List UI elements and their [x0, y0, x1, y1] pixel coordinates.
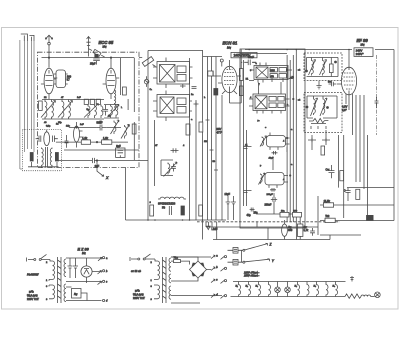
resistor strip bottom left	[150, 205, 154, 216]
capacitor 8uF block	[116, 148, 125, 157]
svg-text:C: C	[344, 188, 346, 192]
diode marks on bridge	[192, 263, 204, 276]
resistor series zigzag	[345, 294, 361, 298]
chassis dashed line	[197, 221, 340, 223]
wire ratio detector outputs	[47, 130, 62, 161]
svg-text:6,3V: 6,3V	[342, 105, 348, 109]
trimmer tilted element under ECC85 label	[93, 49, 101, 56]
terminal circled X	[371, 296, 375, 298]
resistor AM IF upper right	[330, 64, 334, 73]
capacitor electrolytic PSU1 b	[73, 258, 78, 278]
capacitor electrolytic strip bottom	[181, 206, 184, 215]
contact brackets left	[244, 147, 252, 193]
svg-text:µAh: µAh	[29, 290, 34, 294]
svg-text:Cw: Cw	[326, 167, 330, 171]
svg-text:E₃: E₃	[256, 285, 258, 287]
svg-text:0,6*: 0,6*	[342, 108, 347, 112]
screen divider dash-dot vertical	[376, 55, 378, 135]
trimmer tap symbol on bus	[350, 276, 354, 282]
svg-text:200pF: 200pF	[267, 194, 274, 196]
switch lever to Y	[245, 259, 270, 262]
transformer ratio detector windings	[42, 148, 44, 167]
AF-IF main box	[240, 49, 305, 228]
capacitor between cans	[180, 84, 186, 88]
wire right column horizontals	[320, 188, 394, 235]
tube EF89 envelope	[341, 67, 356, 95]
inductor oscillator winding under triode b	[114, 90, 116, 110]
tube ECH81 internal grids	[224, 70, 235, 85]
inductor tuned coil group 3 with trimmer arrow	[88, 105, 103, 119]
AM IF dashed enclosure lower	[304, 93, 342, 133]
wire heater chain bottom bus	[231, 296, 346, 298]
inductor AM IF coil 1b with arrow	[320, 60, 327, 76]
svg-text:E₅: E₅	[314, 285, 316, 287]
wire tie at top of AVC rails	[203, 56, 222, 58]
inductor ratio detector coil	[44, 132, 50, 146]
svg-text:cu 32 ab: cu 32 ab	[131, 269, 142, 273]
svg-text:8µF: 8µF	[116, 144, 121, 148]
wire link between contacts	[240, 250, 242, 262]
svg-text:E₄: E₄	[295, 284, 297, 287]
wire detector rail lower	[61, 160, 148, 162]
wire switch feeds	[228, 250, 243, 262]
pin ticks can C4	[269, 176, 288, 188]
wire B+ rail	[245, 49, 394, 51]
resistor Rv	[298, 224, 303, 236]
tick marks AVC rails	[206, 120, 219, 170]
trap tuned circuit with arrow	[168, 163, 176, 175]
capacitor 2uF	[86, 158, 94, 166]
terminal PSU1 out 3	[98, 281, 102, 285]
heater element coil 8	[326, 282, 328, 297]
wire trimmer stub	[89, 49, 105, 57]
inductor tuning coil of C3 with arrow	[260, 136, 267, 147]
wire T2 primary taps	[154, 259, 158, 299]
svg-text:E₂: E₂	[246, 285, 248, 287]
terminal PSU1 out 2	[98, 270, 102, 274]
wire tuner right verticals	[128, 58, 134, 160]
wire PSU2 out rails	[171, 257, 222, 303]
capacitor padder row	[84, 99, 88, 104]
tube EF89 internal grids	[344, 73, 355, 89]
junction dots B+ rail	[248, 49, 349, 51]
resistor 11k on rail	[323, 203, 333, 207]
wire coil row extension	[104, 105, 119, 119]
terminal PSU2 circles col2	[224, 256, 226, 258]
junction dot output	[96, 160, 97, 161]
wire AM IF lower box	[307, 96, 337, 118]
resistor grid leak left column	[39, 101, 43, 110]
inductor slug coil right A with arrow	[114, 121, 116, 135]
fuse PSU2	[174, 260, 181, 263]
tube ECH81 envelope	[222, 66, 237, 92]
inductor AM IF coil 2a with arrow	[311, 98, 318, 116]
voltage label box 240V/245V	[354, 48, 373, 57]
resistor zigzag AM IF bottom	[309, 118, 328, 122]
wire from tuner bottom to bus	[125, 168, 127, 221]
wire lower rails of AF section	[206, 227, 330, 240]
wire heater chain top bus	[233, 281, 346, 283]
resistor block solid	[367, 215, 374, 220]
IF transformer can C1	[254, 66, 288, 80]
grid cap circle	[220, 59, 223, 62]
wire center box left verticals	[244, 60, 247, 206]
node antenna input circle	[48, 42, 51, 45]
svg-text:7k2: 7k2	[325, 214, 330, 218]
capacitor Cw	[329, 165, 335, 178]
resistor left rail lower	[239, 86, 243, 96]
switch PSU1	[34, 259, 36, 261]
capacitor feedthrough on top rail	[95, 54, 98, 57]
wire Rg Rv stubs	[285, 217, 301, 240]
wire bottom of center box	[257, 147, 296, 214]
heater element coil 7	[317, 282, 319, 297]
resistor on strip vertical right	[199, 122, 203, 132]
antenna AM dipole hook 2	[29, 35, 34, 41]
svg-text:1,7k: 1,7k	[304, 229, 309, 232]
svg-text:E Z 80: E Z 80	[78, 247, 90, 251]
svg-text:X: X	[105, 176, 109, 180]
svg-text:200nF: 200nF	[265, 204, 272, 207]
antenna FM dipole with arrowheads	[45, 35, 52, 39]
inductor AM IF coil 2b with arrow	[320, 98, 327, 116]
svg-text:E₁: E₁	[236, 285, 238, 287]
inductor tuned coil group 2 with trimmer arrow	[62, 100, 70, 119]
svg-text:Mq: Mq	[103, 45, 107, 49]
wire ECH81 pins	[218, 60, 241, 103]
resistor right column 2	[356, 189, 360, 199]
capacitor 100nF bottom of box	[271, 197, 277, 201]
AM IF dashed enclosure upper	[304, 53, 342, 81]
inductor end choke	[361, 295, 371, 297]
wire triode b pins	[103, 58, 120, 99]
heater element coil 1	[239, 282, 241, 297]
inductor IF choke vertical ellipse	[74, 126, 80, 142]
inductor oscillator coil box L1	[56, 70, 66, 88]
ground LMF triangle marker	[207, 226, 211, 229]
svg-text:Mq: Mq	[361, 43, 365, 47]
svg-text:Mq: Mq	[82, 251, 86, 255]
svg-text:1M: 1M	[204, 141, 207, 143]
switch contact circles	[243, 249, 245, 251]
wire tuner lower rail	[64, 149, 139, 151]
wire anode riser	[230, 50, 242, 104]
wire AM can drops	[312, 130, 368, 221]
wire electrolytics to chassis	[228, 210, 234, 220]
resistor Rg PSU1	[72, 289, 82, 299]
capacitor 50nF	[244, 60, 256, 66]
capacitor pair 47u bottom left	[250, 208, 255, 212]
ratio detector dotted enclosure	[22, 130, 61, 171]
capacitor left of coil	[36, 136, 41, 142]
capacitor strip mid	[194, 102, 199, 107]
node dots AM IF upper	[306, 70, 308, 72]
svg-text:50nF: 50nF	[97, 121, 103, 125]
svg-text:220V 7ΩT: 220V 7ΩT	[133, 296, 145, 300]
svg-text:E₆: E₆	[333, 285, 335, 287]
resistor below can 2	[186, 124, 190, 135]
wire PSU1 heater loop	[66, 287, 102, 301]
capacitor box 10n above chassis line	[280, 212, 289, 217]
wire EF89 top to B+ rail	[348, 50, 350, 68]
svg-text:1,2k: 1,2k	[103, 136, 109, 140]
tube rectifier EZ80	[81, 266, 92, 277]
wire FM antenna down into tuner	[48, 36, 50, 68]
inductor tuning coil of C4 with arrow	[259, 173, 266, 185]
wire twin-lead feeder from hooks down to ratio detector	[24, 41, 34, 152]
wire PSU1 B+ mid	[66, 272, 102, 282]
capacitor on strip vertical	[192, 87, 197, 89]
pin ticks can C3	[270, 133, 290, 150]
capacitor below C4	[270, 188, 276, 192]
bridge rectifier diamond	[190, 261, 207, 278]
capacitor electrolytic on AVC rail	[214, 89, 218, 96]
resistor top right corner of tuner	[123, 87, 127, 95]
svg-text:µAh: µAh	[135, 289, 140, 293]
wire EF89 pins down	[337, 84, 353, 135]
svg-text:255V~/63mA~: 255V~/63mA~	[243, 275, 260, 278]
wire trap connections	[161, 160, 173, 176]
junction dots center box	[286, 69, 287, 70]
antenna AM dipole hook 1	[21, 34, 28, 41]
heater element coil 9	[336, 282, 338, 297]
svg-text:FB: FB	[162, 206, 165, 209]
wire AVC verticals left of ECH81	[208, 57, 217, 221]
capacitor on divider	[375, 97, 379, 108]
wire rail connectors	[206, 196, 330, 240]
switch lever to Z	[245, 243, 268, 250]
terminal PSU1 out 1	[98, 257, 102, 261]
capacitor right column	[345, 188, 350, 201]
wire IF strip left vertical	[147, 58, 149, 220]
transformer T2 core	[163, 257, 167, 303]
IF transformer can 2 (FM 2nd IF)	[157, 95, 190, 118]
transformer T1 primary winding	[53, 261, 55, 279]
transformer T2 primary winding	[158, 261, 160, 279]
wire IF strip verticals to lower rail	[209, 222, 213, 227]
svg-text:1nF: 1nF	[80, 124, 84, 126]
capacitor right of coil	[53, 136, 58, 142]
transformer T1 secondary winding	[64, 259, 66, 277]
wire coil row bus	[42, 100, 104, 120]
svg-text:16µF: 16µF	[225, 193, 231, 196]
wire detector rail upper	[61, 141, 128, 143]
capacitor below C3	[272, 151, 278, 155]
tube ECC85 triode a	[44, 68, 54, 94]
wire IF strip top tie	[148, 51, 203, 59]
svg-text:1,2k: 1,2k	[82, 136, 88, 140]
capacitor 47 next to coil 3	[103, 105, 108, 116]
resistor in tuner right	[132, 124, 136, 134]
svg-text:C₁: C₁	[150, 89, 153, 91]
switch block contact M2	[233, 259, 238, 265]
svg-text:4TT*: 4TT*	[217, 130, 223, 134]
wire ECH81 cathode drop	[221, 95, 223, 220]
svg-text:0,5µ: 0,5µ	[46, 125, 51, 127]
inductor slug coil right B with arrow	[125, 125, 127, 139]
transformer T1 core	[58, 257, 62, 303]
wire ratio detector bottom	[28, 162, 59, 168]
svg-text:245V*: 245V*	[356, 52, 365, 56]
svg-text:25µF: 25µF	[90, 62, 96, 65]
svg-text:960: 960	[288, 229, 293, 232]
transformer T2 secondary winding	[169, 258, 171, 271]
arrow K2 out of can C1	[289, 76, 294, 79]
capacitor electrolytic 16uF a	[226, 196, 231, 210]
dial lamp 1	[277, 282, 279, 297]
svg-text:50nF: 50nF	[248, 55, 254, 59]
capacitor on lower rail	[310, 228, 315, 236]
mixer node circle with cross	[144, 79, 149, 84]
net label 50nF drop	[241, 61, 256, 63]
components under AM cans	[308, 138, 330, 142]
wire center box right rails	[287, 49, 296, 228]
wire right edge vertical	[393, 50, 395, 221]
resistor 1k number two	[102, 140, 112, 144]
resistor 1k number one	[81, 140, 90, 144]
node dots AM IF lower	[306, 106, 308, 108]
heater element coil 3	[259, 282, 261, 297]
svg-text:½1A 0A8: ½1A 0A8	[133, 292, 144, 296]
svg-text:1nF: 1nF	[77, 97, 81, 99]
capacitor pair mid strip	[171, 148, 179, 152]
resistor right column 1	[340, 171, 344, 181]
voltage label box 245V/205V	[231, 52, 257, 57]
wire bottom bus of upper section	[126, 219, 227, 221]
svg-text:Rg: Rg	[74, 292, 78, 296]
wire secondary top tie inside box	[240, 53, 287, 55]
switch PSU2	[138, 258, 140, 260]
wire bridge connections	[171, 257, 211, 281]
IF transformer can C2	[253, 94, 286, 111]
wire AM lower box pins	[311, 124, 326, 130]
svg-text:220V 7ΩT: 220V 7ΩT	[27, 297, 39, 301]
svg-text:½1A 0A8: ½1A 0A8	[27, 293, 38, 297]
svg-text:p₂: p₂	[258, 120, 260, 122]
junction dots bottom bus	[147, 219, 203, 221]
svg-text:Mq: Mq	[227, 45, 231, 49]
capacitor electrolytic right (blob)	[55, 153, 58, 162]
switch block contact M1	[233, 248, 238, 254]
capacitor box on AVC rail	[208, 71, 213, 76]
wire triode a pins	[41, 78, 57, 99]
inductor tuned coil group 4	[111, 105, 118, 118]
resistor ECH81 anode	[239, 69, 243, 81]
ground between AM boxes	[316, 81, 321, 89]
junction dots tuner	[48, 57, 49, 58]
resistor Rg	[282, 224, 288, 236]
wire AF output to X arrow	[97, 161, 104, 177]
IF transformer can C4 rounded	[265, 173, 284, 185]
heater element coil 4	[269, 282, 271, 297]
antenna whip with arrowhead	[86, 37, 90, 57]
resistor 7k2 on rail	[325, 218, 335, 222]
capacitor electrolytic left (blob)	[30, 153, 33, 162]
capacitor 500pF between AM boxes	[329, 82, 337, 89]
transformer core lines	[46, 147, 48, 167]
IF transformer can C3 rounded	[267, 136, 286, 147]
inductor sperrkreis horizontal coil	[158, 197, 186, 199]
resistor strip bottom right	[199, 205, 203, 216]
svg-text:47µ: 47µ	[247, 214, 252, 217]
svg-text:11,5k: 11,5k	[324, 199, 331, 203]
capacitor electrolytic PSU1 a	[68, 258, 73, 278]
wire mid rail	[69, 127, 121, 129]
capacitor 50uF on rail	[97, 125, 106, 131]
wire AM antenna lead far left	[20, 40, 23, 169]
capacitor outside ratio box	[65, 135, 69, 148]
wire IF strip right verticals	[190, 50, 203, 240]
svg-text:Ph4650W: Ph4650W	[27, 272, 39, 276]
tube ECC85 triode b	[106, 68, 116, 94]
wire triple verticals from AM section	[356, 95, 364, 189]
wire screen drop	[120, 58, 122, 95]
FM tuner enclosure dash-dot box	[38, 52, 140, 167]
wire T1 primary taps	[49, 260, 53, 299]
svg-text:SPERRKREIS: SPERRKREIS	[158, 202, 176, 205]
svg-text:BEM: BEM	[270, 70, 275, 72]
IF transformer can 1 (FM 1st IF)	[157, 62, 190, 85]
inductor tuned coil group 1 with trimmer arrow	[45, 100, 53, 119]
pin ticks can C1	[250, 63, 292, 83]
wire can C1 to can C2 links	[249, 81, 281, 94]
heater element coil 2	[249, 282, 251, 297]
capacitor box 160 above chassis line	[293, 212, 302, 217]
wire mains input PSU1	[27, 258, 34, 262]
wire tuner top rail	[42, 57, 135, 59]
terminal PSU1 out 4	[103, 299, 105, 301]
pin ticks can C2	[249, 99, 290, 114]
inductor AM IF coil 1a with arrow	[309, 60, 316, 76]
wire PSU1 secondary top rail	[66, 257, 102, 259]
dial lamp 2	[287, 282, 289, 297]
wire AM IF upper box	[307, 58, 339, 77]
coupling element tilted coil at tuner exit	[142, 57, 154, 67]
heater element coil 5	[298, 282, 300, 297]
wire IF strip inner vertical	[154, 120, 156, 186]
terminal PSU2 arrows col1	[211, 255, 215, 259]
wire ECH81 grid line	[213, 71, 221, 76]
heater element coil 6	[307, 282, 309, 297]
wire mains input PSU2	[130, 257, 138, 261]
svg-text:88V: 88V	[217, 127, 222, 131]
capacitor electrolytic 16uF b	[231, 196, 236, 210]
